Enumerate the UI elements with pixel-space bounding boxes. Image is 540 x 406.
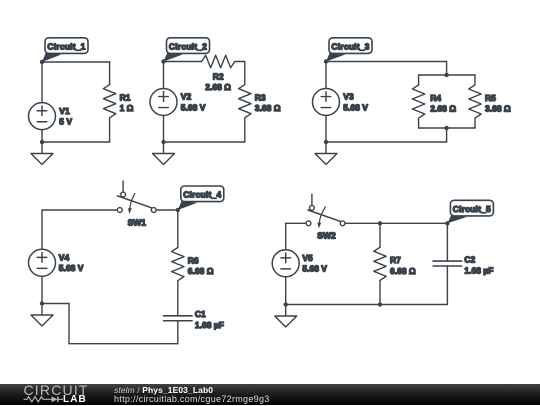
ground: Circuit 2 bbox=[163, 142, 165, 154]
wire: V5 top to SW2 left contact bbox=[286, 222, 306, 224]
node Circuit_5 (flag + name label) bbox=[445, 221, 449, 225]
wire: to V4 negative bbox=[42, 303, 69, 305]
svg-text:Circuit_3: Circuit_3 bbox=[331, 41, 369, 51]
svg-text:5.68 V: 5.68 V bbox=[302, 264, 327, 274]
svg-text:V4: V4 bbox=[59, 253, 70, 263]
svg-text:V3: V3 bbox=[343, 92, 354, 102]
wire: V3 bottom lead bbox=[325, 115, 327, 142]
svg-text:5.68 V: 5.68 V bbox=[343, 102, 368, 112]
resistor R4 bbox=[412, 85, 424, 118]
voltage source V5 (5.68 V) bbox=[272, 250, 299, 277]
capacitor C1 bbox=[164, 315, 193, 317]
svg-text:Circuit_5: Circuit_5 bbox=[453, 204, 491, 214]
footer: author / title bbox=[114, 385, 213, 395]
node: V5 negative junction bbox=[284, 302, 288, 306]
switch SW1 bbox=[117, 181, 156, 214]
wire: Circuit 3 bottom rail bbox=[326, 141, 447, 143]
node: V2 negative junction bbox=[161, 140, 165, 144]
resistor R1 bbox=[103, 85, 115, 118]
svg-text:6.68 Ω: 6.68 Ω bbox=[188, 266, 214, 276]
svg-text:SW1: SW1 bbox=[128, 217, 147, 227]
svg-text:R1: R1 bbox=[120, 93, 131, 103]
wire: V3 top lead bbox=[325, 62, 327, 89]
resistor R7 bbox=[374, 247, 386, 280]
wire: R4 top lead bbox=[418, 75, 420, 85]
footer: url bbox=[114, 394, 270, 404]
footer bar bbox=[0, 384, 540, 405]
wire: drop to parallel pair bbox=[446, 62, 448, 76]
wire: Circuit 2 bottom rail bbox=[164, 141, 245, 143]
svg-text:R4: R4 bbox=[430, 93, 441, 103]
svg-text:V1: V1 bbox=[59, 106, 70, 116]
wire: V5 top lead bbox=[285, 223, 287, 250]
wire: Circuit 1 bottom rail bbox=[42, 141, 110, 143]
wire: C2 bottom lead bbox=[446, 266, 448, 305]
wire: R7 top lead bbox=[379, 223, 381, 247]
wire: V4 top lead bbox=[41, 210, 43, 249]
junction: R7 bottom bbox=[378, 302, 382, 306]
resistor R5 bbox=[469, 85, 481, 118]
voltage source V4 (5.68 V) bbox=[29, 249, 56, 276]
svg-text:V2: V2 bbox=[181, 92, 192, 102]
wire: parallel top bar bbox=[419, 74, 475, 76]
wire: V2 bottom lead bbox=[163, 115, 165, 142]
node Circuit_2 (flag + name label) bbox=[161, 59, 165, 63]
wire: R1 bottom lead bbox=[109, 118, 111, 142]
svg-text:R3: R3 bbox=[255, 93, 266, 103]
voltage source V2 (5.68 V) bbox=[150, 88, 177, 115]
junction: R7 top bbox=[378, 221, 382, 225]
voltage source V3 (5.68 V) bbox=[313, 88, 340, 115]
svg-text:2.68 Ω: 2.68 Ω bbox=[430, 104, 456, 114]
svg-text:5 V: 5 V bbox=[59, 117, 72, 127]
wire: Circuit 4 bottom rail bbox=[69, 343, 178, 345]
wire: SW2 right contact to C2 branch bbox=[345, 222, 447, 224]
junction: parallel top bbox=[444, 73, 448, 77]
svg-text:Circuit_4: Circuit_4 bbox=[183, 190, 221, 200]
wire: Circuit 1 top rail from node to R1 bbox=[42, 61, 110, 63]
wire: R6 top lead bbox=[177, 210, 179, 248]
svg-text:6.68 Ω: 6.68 Ω bbox=[390, 266, 416, 276]
svg-text:R2: R2 bbox=[213, 71, 224, 81]
wire: R5 bottom lead bbox=[474, 118, 476, 128]
node Circuit_1 (flag + name label) bbox=[40, 60, 44, 64]
wire: R3 top lead bbox=[244, 62, 246, 85]
switch SW2 bbox=[306, 194, 345, 228]
svg-text:1.68 µF: 1.68 µF bbox=[464, 265, 493, 275]
CircuitLab logo wordmark bbox=[24, 382, 89, 398]
svg-text:R5: R5 bbox=[485, 93, 496, 103]
wire: V1 top lead bbox=[41, 62, 43, 103]
logo circuit motif (resistor-diode) bbox=[22, 394, 72, 406]
svg-text:5.68 V: 5.68 V bbox=[181, 102, 206, 112]
node: V4 negative junction bbox=[40, 301, 44, 305]
wire: V2 top lead bbox=[163, 62, 165, 89]
wire: C1 bottom lead bbox=[177, 321, 179, 344]
svg-text:5.68 V: 5.68 V bbox=[59, 263, 84, 273]
svg-text:Circuit_1: Circuit_1 bbox=[47, 41, 85, 51]
node Circuit_4 (flag + name label) bbox=[176, 208, 180, 212]
ground: Circuit 5 bbox=[285, 305, 287, 317]
wire: R6 to C1 bbox=[177, 281, 179, 316]
svg-text:SW2: SW2 bbox=[317, 231, 336, 241]
resistor R3 bbox=[239, 85, 251, 118]
capacitor C2 bbox=[433, 260, 462, 262]
resistor R2 (horizontal) bbox=[202, 55, 235, 67]
svg-text:3.68 Ω: 3.68 Ω bbox=[255, 103, 281, 113]
wire: R7 bottom lead bbox=[379, 280, 381, 304]
node: V3 negative junction bbox=[324, 140, 328, 144]
wire: Circuit 2 node to R2 bbox=[164, 61, 202, 63]
wire: V4 top to SW1 left contact bbox=[42, 209, 117, 211]
wire: V4 bottom lead bbox=[41, 276, 43, 303]
wire: R2 to top-right corner bbox=[235, 61, 245, 63]
wire: Circuit 3 top rail bbox=[326, 61, 447, 63]
wire: SW1 right contact to node bbox=[156, 209, 178, 211]
node: V1 negative junction bbox=[40, 140, 44, 144]
svg-text:Circuit_2: Circuit_2 bbox=[169, 41, 207, 51]
ground: Circuit 1 bbox=[41, 142, 43, 154]
ground: Circuit 4 bbox=[41, 304, 43, 316]
wire: R5 top lead bbox=[474, 75, 476, 85]
wire: R3 bottom lead bbox=[244, 118, 246, 142]
junction: parallel bottom bbox=[444, 126, 448, 130]
svg-text:2.68 Ω: 2.68 Ω bbox=[205, 82, 231, 92]
svg-text:1.68 µF: 1.68 µF bbox=[195, 320, 224, 330]
svg-text:R7: R7 bbox=[390, 255, 401, 265]
svg-text:3.68 Ω: 3.68 Ω bbox=[485, 104, 511, 114]
svg-text:V5: V5 bbox=[302, 253, 313, 263]
wire: riser to ground node bbox=[68, 304, 70, 344]
node Circuit_3 (flag + name label) bbox=[324, 59, 328, 63]
svg-text:R6: R6 bbox=[188, 256, 199, 266]
svg-text:1 Ω: 1 Ω bbox=[120, 103, 134, 113]
wire: V1 bottom lead bbox=[41, 130, 43, 142]
wire: R1 top lead bbox=[109, 62, 111, 85]
voltage source V1 (5 V) bbox=[29, 103, 56, 130]
wire: parallel bottom bar bbox=[419, 127, 475, 129]
wire: R4 bottom lead bbox=[418, 118, 420, 128]
ground: Circuit 3 bbox=[325, 142, 327, 154]
wire: Circuit 5 bottom rail bbox=[286, 304, 448, 306]
wire: drop from parallel pair bbox=[446, 128, 448, 142]
wire: V5 bottom lead bbox=[285, 277, 287, 305]
wire: C2 top lead bbox=[446, 223, 448, 261]
resistor R6 bbox=[172, 248, 184, 281]
svg-text:C1: C1 bbox=[195, 309, 206, 319]
svg-text:C2: C2 bbox=[464, 255, 475, 265]
